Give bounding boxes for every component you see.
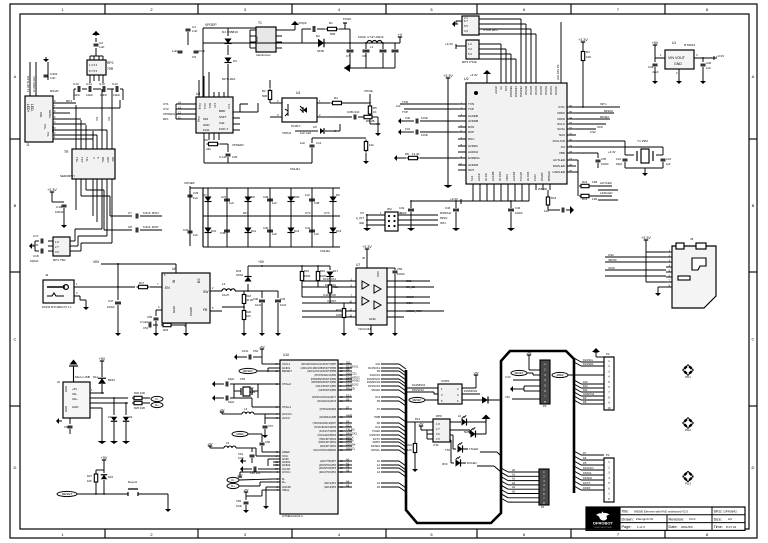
- svg-text:RXLED: RXLED: [346, 386, 355, 390]
- svg-text:B: B: [752, 203, 755, 208]
- capacitor C38: [309, 198, 315, 200]
- svg-text:D7: D7: [346, 405, 350, 409]
- svg-text:T1: T1: [258, 21, 262, 25]
- svg-text:SCK: SCK: [597, 125, 603, 129]
- diode D9: [287, 197, 294, 202]
- ground rail under filter: [350, 67, 395, 69]
- capacitor C29: [188, 194, 193, 196]
- net oval Dplus to U10: [227, 483, 239, 488]
- ground left of RP1: [456, 20, 462, 22]
- capacitor C7 RXN coupling: [110, 215, 132, 217]
- LED RX: [450, 439, 451, 441]
- svg-text:SKU:: SKU:: [714, 510, 723, 514]
- svg-text:R18: R18: [246, 294, 252, 298]
- svg-text:BS: BS: [197, 278, 201, 283]
- RP2 resistor pack: [87, 60, 106, 75]
- svg-text:DFTL30A: DFTL30A: [222, 77, 236, 81]
- svg-text:1uF: 1uF: [272, 201, 277, 205]
- svg-text:10K: 10K: [407, 448, 412, 452]
- resistor R22: [161, 324, 163, 326]
- capacitor C57 avcc: [264, 418, 266, 424]
- svg-text:C21: C21: [616, 157, 622, 161]
- svg-text:D11: D11: [251, 229, 256, 233]
- svg-text:+3.3V: +3.3V: [608, 150, 616, 154]
- svg-text:RXLED: RXLED: [372, 389, 381, 392]
- net oval RESET: [57, 491, 77, 496]
- svg-text:4 5: 4 5: [436, 437, 440, 441]
- svg-text:D11: D11: [346, 360, 351, 364]
- vcc gnd rail wires: [252, 447, 273, 449]
- uvcc wire: [239, 476, 241, 478]
- svg-text:A_INT: A_INT: [356, 216, 364, 220]
- capacitor C20: [702, 58, 704, 62]
- svg-text:RSVDF: RSVDF: [540, 172, 544, 181]
- ICSP1 left wires: [406, 387, 438, 389]
- svg-text:1uF: 1uF: [305, 193, 310, 197]
- ground left of RP4: [32, 245, 35, 247]
- capacitor C13: [77, 86, 79, 92]
- svg-text:(ADC7/TDI)PF7: (ADC7/TDI)PF7: [320, 460, 337, 463]
- svg-text:(MC1N/OC0A/OC1C/PCINT7)PB7: (MC1N/OC0A/OC1C/PCINT7)PB7: [301, 363, 336, 366]
- capacitor C39: [224, 229, 230, 231]
- capacitor C50 comp network: [155, 310, 157, 316]
- svg-text:R11: R11: [333, 285, 338, 289]
- svg-text:RESET: RESET: [62, 492, 72, 496]
- svg-text:D15/SCK2: D15/SCK2: [346, 382, 359, 386]
- svg-text:C51: C51: [143, 326, 149, 330]
- svg-text:C13: C13: [73, 82, 79, 86]
- svg-text:L1: L1: [370, 45, 374, 49]
- svg-text:D15/SCK2: D15/SCK2: [368, 385, 380, 388]
- svg-text:C41: C41: [305, 226, 311, 230]
- svg-text:TXN: TXN: [402, 100, 408, 104]
- svg-text:C50: C50: [147, 315, 153, 319]
- grounds under USB: [101, 408, 103, 440]
- fiducial PD3: [684, 473, 691, 480]
- svg-text:100uF 4.7uH 100uF: 100uF 4.7uH 100uF: [358, 35, 384, 39]
- svg-text:A4: A4: [346, 479, 350, 483]
- +3.3V above U7: [366, 249, 368, 253]
- svg-text:1 8: 1 8: [55, 240, 59, 244]
- svg-text:C40: C40: [263, 226, 269, 230]
- svg-text:PMODE0: PMODE0: [509, 85, 513, 97]
- svg-text:IP2: IP2: [387, 207, 392, 211]
- title block table: [586, 507, 745, 530]
- ground under C16: [63, 222, 65, 225]
- svg-text:INTn: INTn: [600, 102, 607, 106]
- capacitor C31 on RXP: [420, 131, 458, 133]
- svg-text:A0: A0: [346, 457, 350, 461]
- svg-text:NC2: NC2: [470, 175, 474, 181]
- svg-text:3.3V: 3.3V: [505, 375, 511, 379]
- svg-text:1 2: 1 2: [468, 42, 472, 46]
- svg-text:SS34: SS34: [236, 273, 243, 277]
- capacitor C25 3.3nF: [330, 116, 352, 118]
- svg-text:(PD0/MISO/PCINT3)PB3: (PD0/MISO/PCINT3)PB3: [311, 379, 337, 381]
- svg-text:V2.0: V2.0: [689, 517, 696, 521]
- svg-text:VREF: VREF: [236, 432, 244, 436]
- svg-text:D13: D13: [346, 393, 351, 397]
- svg-text:18pF: 18pF: [228, 377, 235, 381]
- svg-text:D3/SCL: D3/SCL: [371, 449, 380, 452]
- svg-text:U5: U5: [313, 125, 317, 129]
- svg-text:BK34: BK34: [108, 378, 115, 382]
- svg-text:D6: D6: [346, 419, 350, 423]
- svg-text:LED-: LED-: [30, 104, 34, 112]
- diode D17 zener and R11: [329, 266, 331, 270]
- svg-text:D1/TX: D1/TX: [583, 482, 590, 485]
- diode D13: [329, 228, 336, 233]
- svg-text:2B: 2B: [371, 119, 375, 123]
- svg-text:A2: A2: [346, 464, 350, 468]
- capacitor C30 on RXN: [420, 120, 458, 122]
- svg-text:D0/RX: D0/RX: [583, 487, 591, 490]
- svg-text:PD1: PD1: [685, 375, 691, 379]
- svg-text:RCL: RCL: [208, 103, 212, 109]
- svg-text:6.8nF: 6.8nF: [143, 211, 151, 215]
- resistor R12 ACTLED: [576, 159, 580, 161]
- svg-text:R4: R4: [334, 96, 338, 100]
- svg-text:47uF: 47uF: [198, 49, 205, 53]
- resistor R6: [362, 116, 364, 118]
- svg-text:JP: JP: [362, 256, 365, 260]
- svg-text:RSVD1: RSVD1: [549, 85, 553, 94]
- svg-text:A3: A3: [346, 468, 350, 472]
- svg-text:CT1: CT1: [163, 102, 169, 106]
- svg-text:D2/SDA: D2/SDA: [346, 442, 356, 446]
- resistor R24: [414, 442, 416, 444]
- U7 left pin wires: [302, 280, 356, 282]
- svg-text:Drawn:: Drawn:: [622, 517, 634, 521]
- svg-text:D+: D+: [282, 480, 286, 484]
- svg-text:100nF: 100nF: [515, 211, 523, 215]
- svg-text:ICTMEGA32U4-A: ICTMEGA32U4-A: [282, 514, 303, 518]
- svg-text:D17: D17: [333, 269, 339, 273]
- svg-text:+V: +V: [398, 33, 403, 37]
- svg-text:1uF: 1uF: [706, 66, 711, 70]
- svg-text:U7: U7: [356, 263, 360, 267]
- svg-text:CT2: CT2: [305, 211, 311, 215]
- svg-text:C31: C31: [405, 127, 411, 131]
- capacitor C17: [40, 239, 42, 244]
- svg-text:L6: L6: [458, 414, 462, 418]
- ground above header P3: [595, 351, 597, 353]
- svg-text:RSVD5: RSVD5: [529, 85, 533, 94]
- capacitor C33: [453, 208, 459, 210]
- svg-text:SF2: SF2: [203, 117, 209, 121]
- svg-text:100K: 100K: [336, 313, 343, 317]
- U3 left pin wires with labels: [176, 103, 196, 105]
- svg-text:C14: C14: [86, 82, 92, 86]
- svg-text:C59: C59: [236, 499, 242, 503]
- +5V reset pullup: [103, 460, 105, 464]
- svg-text:VPOEP: VPOEP: [205, 23, 217, 27]
- svg-text:RXP: RXP: [152, 225, 158, 229]
- svg-text:18pF: 18pF: [616, 162, 623, 166]
- svg-text:VIN: VIN: [505, 395, 510, 399]
- +3.3V node right: [377, 123, 379, 125]
- +5V output node: [248, 265, 262, 267]
- svg-text:C27: C27: [221, 195, 227, 199]
- svg-text:RP9: RP9: [436, 414, 442, 418]
- svg-text:1uF: 1uF: [99, 45, 104, 49]
- VIN junction wires: [117, 263, 119, 265]
- svg-text:C7: C7: [346, 54, 350, 58]
- svg-text:C32: C32: [399, 206, 405, 210]
- svg-text:ZhengLi/LYD: ZhengLi/LYD: [636, 517, 654, 521]
- svg-text:(ADC13/OC1B/OC6B/PCINT5)PB6: (ADC13/OC1B/OC6B/PCINT5)PB6: [301, 367, 337, 370]
- svg-text:MISO: MISO: [557, 111, 565, 115]
- svg-text:XO: XO: [561, 145, 566, 149]
- svg-text:C48: C48: [253, 297, 259, 301]
- svg-text:GND: GND: [64, 386, 68, 392]
- svg-text:R16: R16: [320, 269, 326, 273]
- svg-text:F D: F D: [227, 104, 231, 109]
- svg-text:1nF: 1nF: [192, 29, 197, 33]
- svg-text:J3: J3: [690, 237, 694, 241]
- header P2 power: [540, 360, 550, 404]
- ground under C20: [702, 78, 704, 81]
- svg-text:P3: P3: [606, 352, 610, 356]
- ICSP1 right wires: [475, 375, 477, 379]
- transformer TR magnetics: [72, 149, 115, 179]
- svg-text:RP4 75R: RP4 75R: [53, 258, 66, 262]
- svg-text:Reset1: Reset1: [128, 480, 138, 484]
- svg-text:3 6: 3 6: [436, 432, 440, 436]
- svg-text:D7: D7: [203, 193, 207, 197]
- svg-text:(SCLK/PCINT1)PB1: (SCLK/PCINT1)PB1: [316, 386, 337, 388]
- ruler row dividers: [10, 138, 20, 140]
- svg-text:D-: D-: [232, 478, 235, 482]
- capacitor C26: [227, 144, 229, 152]
- svg-text:XTAL1: XTAL1: [282, 405, 291, 409]
- svg-text:+3.3V: +3.3V: [470, 73, 478, 77]
- svg-text:C8: C8: [362, 54, 366, 58]
- svg-text:TCT: TCT: [80, 157, 84, 163]
- capacitor C14: [88, 86, 90, 92]
- svg-text:3 6: 3 6: [55, 250, 59, 254]
- svg-text:R26 10R: R26 10R: [134, 391, 145, 395]
- svg-text:GND: GND: [172, 305, 176, 313]
- svg-text:RSVD6: RSVD6: [524, 85, 528, 94]
- capacitor C49: [277, 266, 279, 298]
- svg-text:VDD1: VDD1: [505, 173, 509, 181]
- svg-text:50R: 50R: [330, 32, 335, 36]
- svg-text:(ADC12/OC1A/PCINT5)PB5: (ADC12/OC1A/PCINT5)PB5: [307, 370, 336, 373]
- VBD decoupling C35: [576, 152, 598, 154]
- diode D15 SS34: [247, 284, 249, 291]
- svg-text:D3/SCL: D3/SCL: [346, 446, 356, 450]
- svg-text:74LVC244: 74LVC244: [358, 327, 371, 331]
- wire from U3 to U4: [240, 111, 258, 113]
- svg-text:EN: EN: [165, 286, 170, 290]
- svg-text:VPOED2: VPOED2: [232, 143, 244, 147]
- svg-text:+3.3V: +3.3V: [578, 38, 588, 42]
- ground arrow above LEDs: [485, 419, 487, 422]
- svg-text:+5V: +5V: [101, 456, 108, 460]
- U3 right pin wires: [233, 111, 240, 113]
- svg-text:R9: R9: [204, 138, 208, 142]
- capacitor C36 tocap: [561, 208, 563, 213]
- svg-text:UVCC: UVCC: [282, 470, 291, 474]
- svg-text:(SCL/INT0/OC0B)PD0: (SCL/INT0/OC0B)PD0: [313, 450, 336, 452]
- resistor R27 10K: [95, 472, 97, 474]
- svg-text:100nF: 100nF: [30, 259, 39, 263]
- diode D3: [224, 58, 231, 63]
- svg-text:J2: J2: [45, 273, 49, 277]
- svg-text:LINKLED: LINKLED: [552, 170, 565, 174]
- capacitor C28: [267, 198, 273, 200]
- svg-text:D9: D9: [346, 367, 350, 371]
- capacitor C51 and resistor R22: [145, 301, 162, 303]
- ground under U8: [185, 330, 187, 333]
- wires RP2 to caps and TR: [89, 79, 91, 83]
- TR top pin wires: [75, 144, 77, 149]
- IP2 right wires: [398, 214, 438, 216]
- svg-text:D: D: [752, 465, 755, 470]
- U10 main ground: [265, 505, 267, 506]
- svg-text:D: D: [14, 465, 17, 470]
- svg-text:GND: GND: [674, 62, 682, 66]
- svg-text:C0: C0: [107, 117, 111, 121]
- svg-text:RXN: RXN: [468, 125, 474, 129]
- +3.3V for J3: [645, 240, 647, 244]
- svg-text:+3.3V: +3.3V: [445, 42, 453, 46]
- svg-text:XTAL2: XTAL2: [282, 382, 291, 386]
- svg-text:AGNDB: AGNDB: [491, 171, 495, 181]
- svg-text:RCT: RCT: [106, 157, 110, 163]
- ground at USB shell: [69, 429, 71, 434]
- svg-text:CS2: CS2: [608, 253, 614, 257]
- svg-text:R23: R23: [336, 308, 342, 312]
- U7 right pin wires: [387, 280, 404, 282]
- capacitor C9b 100uF: [382, 42, 384, 44]
- resistor R14 LINKLED: [579, 195, 581, 197]
- J3 ground: [658, 286, 666, 288]
- svg-text:D2: D2: [316, 34, 320, 38]
- svg-text:+5V: +5V: [526, 351, 531, 355]
- svg-text:U10: U10: [283, 353, 289, 357]
- svg-text:AVCC: AVCC: [282, 416, 291, 420]
- svg-text:RP1: RP1: [66, 99, 72, 103]
- svg-text:C16: C16: [56, 205, 62, 209]
- svg-text:1uF: 1uF: [314, 232, 319, 236]
- +5V into U1: [654, 45, 656, 49]
- diode D11: [244, 228, 251, 233]
- svg-text:R2: R2: [262, 89, 266, 93]
- svg-text:SW: SW: [203, 290, 209, 294]
- svg-text:+5V: +5V: [207, 442, 212, 446]
- svg-text:TX0: TX0: [445, 448, 451, 452]
- svg-text:U2: U2: [464, 77, 469, 81]
- svg-text:AVDDB: AVDDB: [468, 119, 478, 123]
- svg-text:+5V: +5V: [259, 345, 264, 349]
- svg-text:C28: C28: [263, 195, 269, 199]
- svg-text:RP2: RP2: [107, 61, 114, 65]
- svg-text:TD+: TD+: [75, 157, 79, 163]
- resistor R20: [243, 309, 245, 311]
- svg-text:D+: D+: [231, 484, 235, 488]
- svg-text:R22: R22: [163, 328, 169, 332]
- svg-text:1 2 3 4: 1 2 3 4: [89, 63, 98, 67]
- J3 pin stubs: [666, 251, 672, 253]
- svg-text:GND/CS2: GND/CS2: [583, 393, 595, 396]
- ground above U2 pins: [483, 70, 491, 74]
- svg-text:(ICP3/CLK0/OC4A)PC7: (ICP3/CLK0/OC4A)PC7: [312, 396, 337, 399]
- svg-text:1uF: 1uF: [193, 233, 198, 237]
- svg-text:VCC: VCC: [376, 271, 380, 278]
- svg-text:ACTLED: ACTLED: [553, 158, 566, 162]
- svg-text:RXLED: RXLED: [467, 461, 477, 465]
- svg-text:(SS/PCINT0)PB0: (SS/PCINT0)PB0: [318, 390, 336, 392]
- capacitor C62 ucap: [258, 468, 273, 470]
- svg-text:D13: D13: [375, 396, 380, 399]
- svg-text:D12: D12: [583, 385, 588, 388]
- svg-text:10k: 10k: [369, 143, 374, 147]
- svg-text:2021/9/6: 2021/9/6: [681, 525, 693, 529]
- svg-text:FL01: FL01: [203, 128, 210, 132]
- capacitor C9 47uF: [194, 50, 199, 52]
- RP3 right wires into U2 top: [479, 43, 501, 45]
- svg-text:10K: 10K: [246, 314, 251, 318]
- AREF oval crossing: [552, 372, 568, 377]
- svg-text:C53: C53: [240, 377, 246, 381]
- svg-text:LINKLED: LINKLED: [600, 191, 613, 195]
- svg-text:D14: D14: [93, 375, 99, 379]
- svg-text:RT9013: RT9013: [684, 43, 695, 47]
- svg-text:Time:: Time:: [714, 525, 723, 529]
- RP2 common node wire: [90, 55, 103, 57]
- svg-text:TXN: TXN: [468, 102, 474, 106]
- resistor R2 50R: [269, 89, 271, 91]
- svg-text:VPOE: VPOE: [364, 89, 373, 93]
- svg-text:D12: D12: [375, 426, 380, 429]
- svg-text:U1: U1: [672, 41, 676, 45]
- board outline bus: [406, 351, 574, 523]
- svg-text:SSFT: SSFT: [219, 115, 227, 119]
- left bus net wires: [381, 363, 399, 365]
- svg-text:8 7 6 5: 8 7 6 5: [89, 69, 98, 73]
- svg-text:10K: 10K: [586, 55, 591, 59]
- right bus digital wires lower: [574, 451, 581, 455]
- svg-text:TXLED: TXLED: [346, 427, 355, 431]
- svg-text:RESET: RESET: [282, 369, 292, 373]
- svg-text:D10: D10: [211, 229, 217, 233]
- capacitor C56: [387, 267, 395, 269]
- svg-text:R24: R24: [407, 443, 413, 447]
- svg-text:6.8nF: 6.8nF: [143, 225, 151, 229]
- svg-text:NC3: NC3: [504, 85, 508, 91]
- svg-text:FB: FB: [203, 308, 208, 312]
- +3.3V near TR: [51, 192, 53, 196]
- +VPOE arrow right: [399, 37, 401, 43]
- svg-text:(XCK1/ADC8)PD4: (XCK1/ADC8)PD4: [317, 434, 336, 437]
- svg-text:RXP: RXP: [468, 130, 474, 134]
- svg-text:VIN VOUT: VIN VOUT: [668, 56, 686, 60]
- svg-text:SED09PhY: SED09PhY: [60, 174, 75, 178]
- svg-text:AUDD2: AUDD2: [468, 150, 479, 154]
- svg-text:R25 10R: R25 10R: [134, 406, 145, 410]
- svg-text:+5V: +5V: [419, 422, 424, 426]
- P1 wires: [508, 471, 539, 473]
- ground under J2 pin3: [85, 304, 87, 307]
- USB shield stub: [69, 418, 71, 424]
- svg-text:Revision:: Revision:: [669, 517, 685, 521]
- svg-text:11 ACTLED: 11 ACTLED: [26, 75, 30, 92]
- ground under C19: [654, 78, 656, 81]
- svg-text:X_RST: X_RST: [327, 299, 336, 303]
- svg-text:J1: J1: [26, 143, 30, 147]
